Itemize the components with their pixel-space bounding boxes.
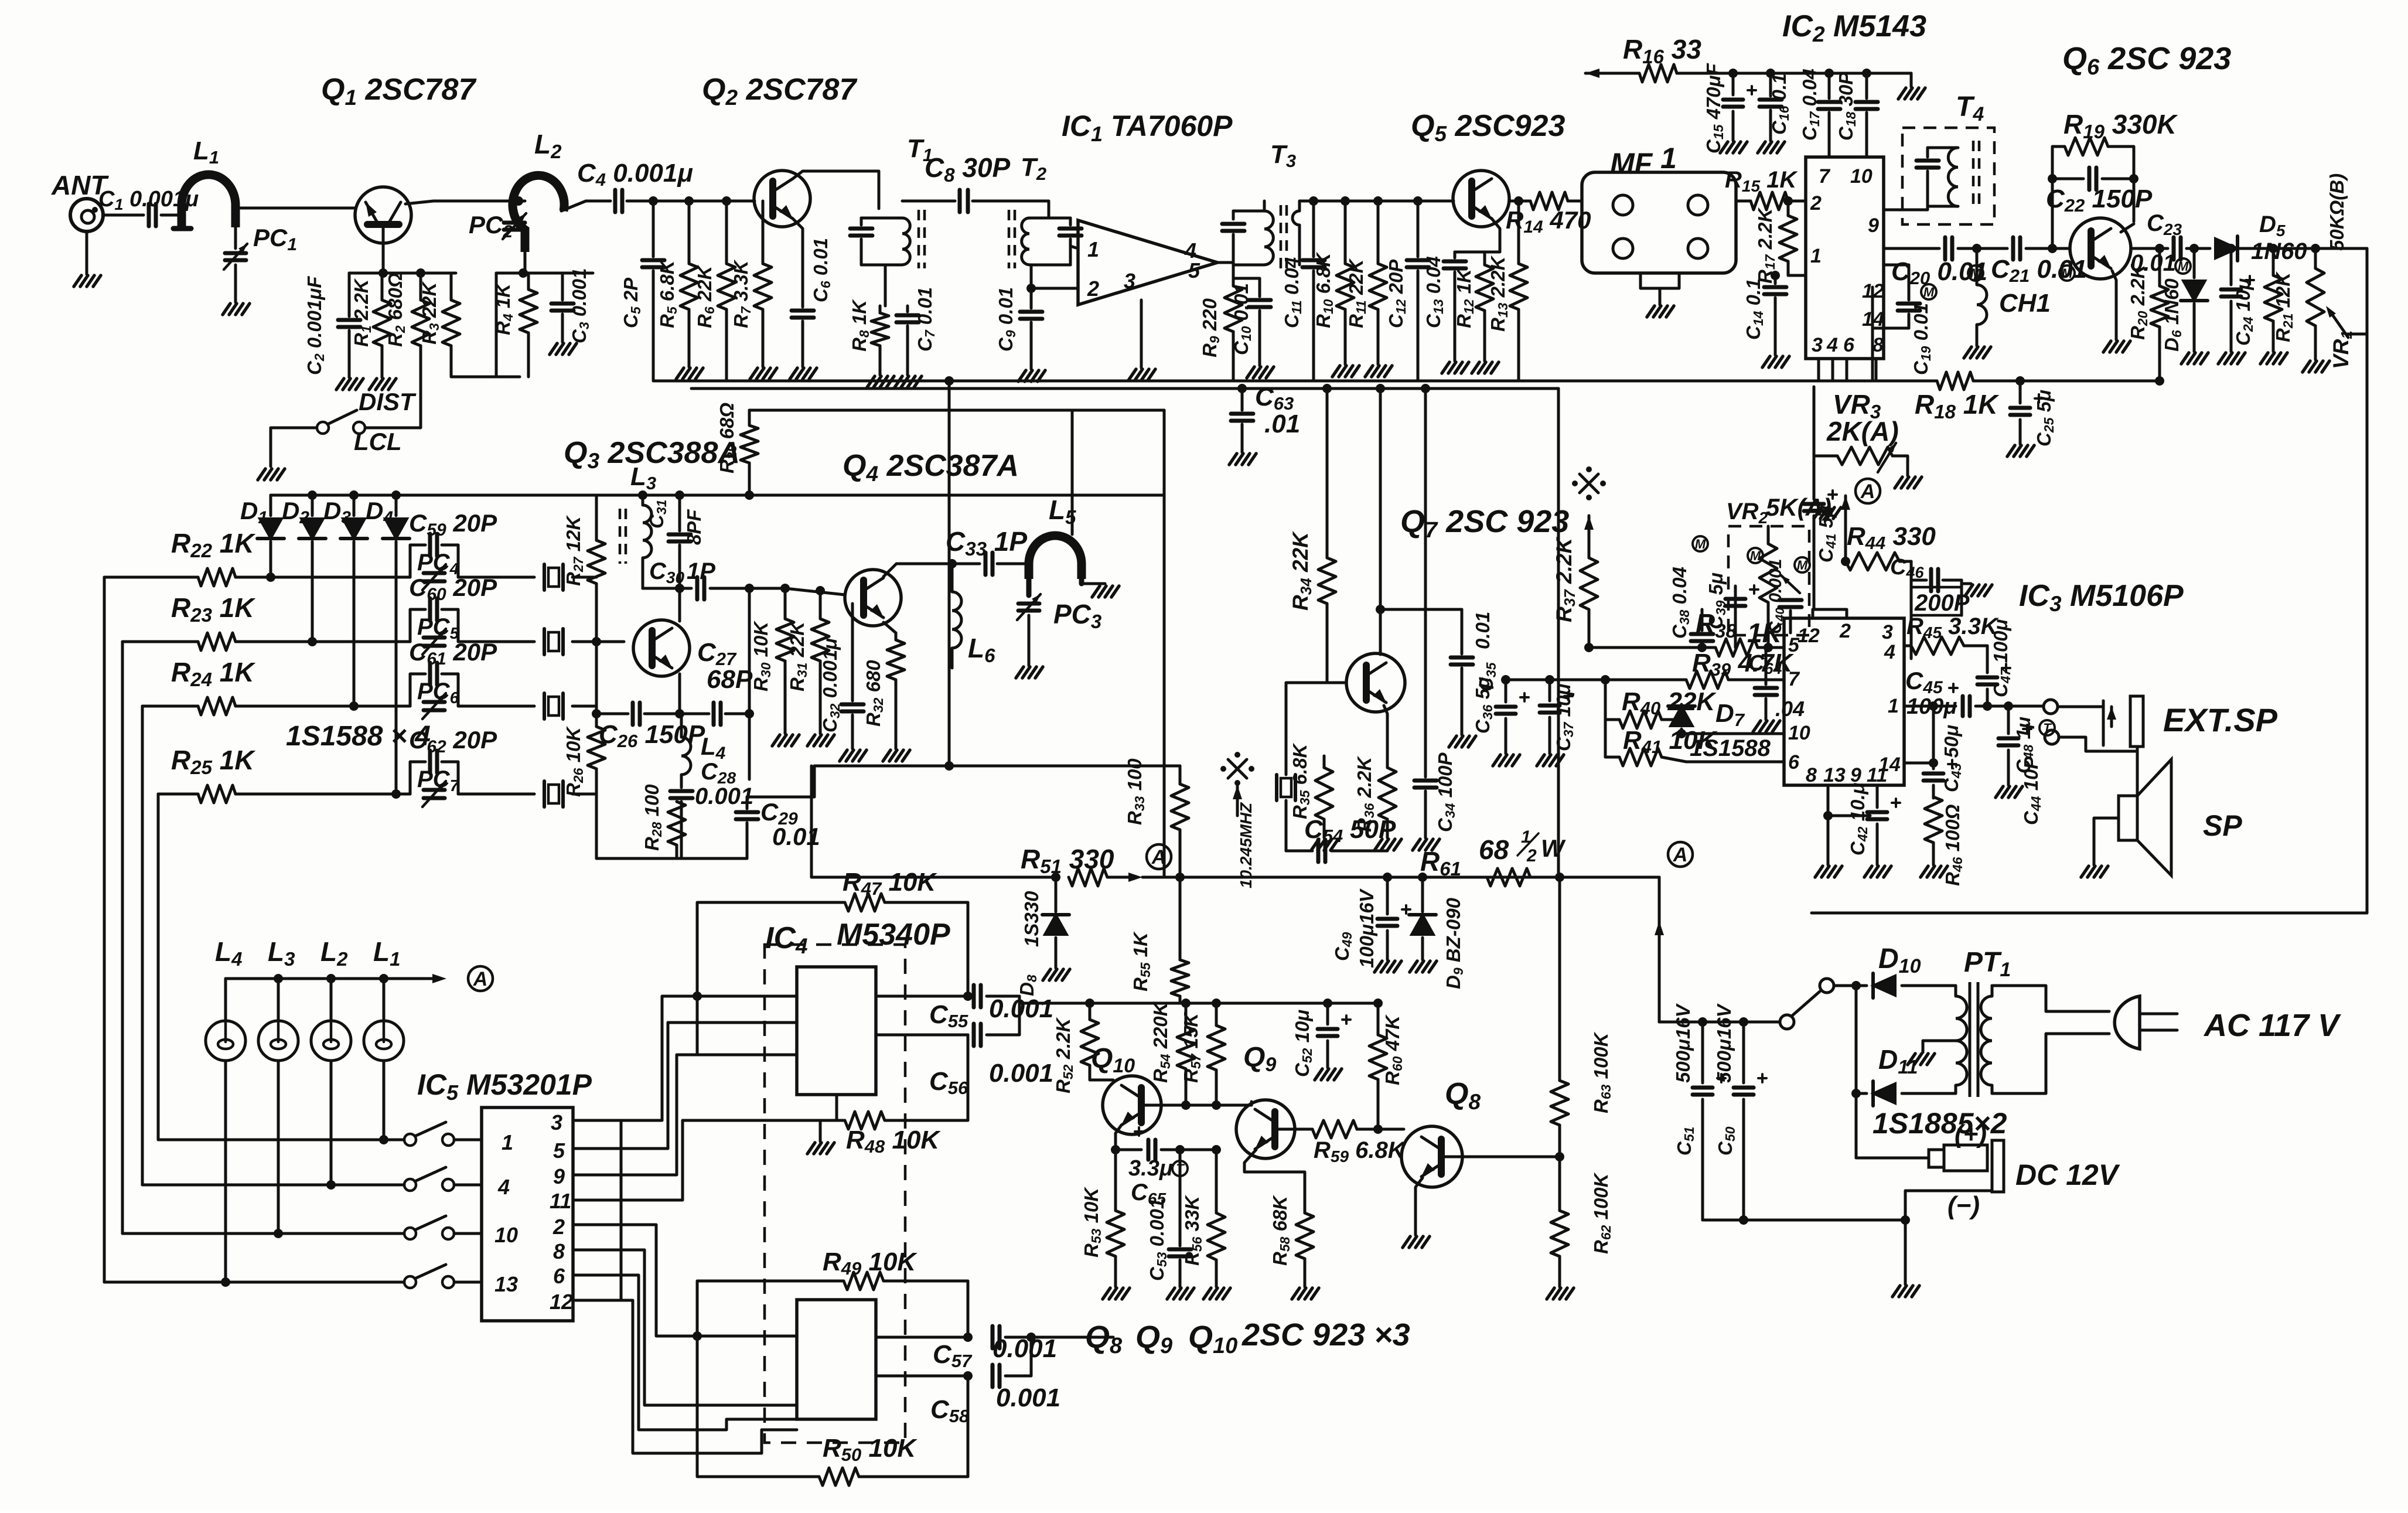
wire R38 to pin5 [1758,646,1784,649]
wire VR3 left [1814,387,1837,456]
resistor R11 22K [1373,196,1383,206]
svg-text:A: A [1673,844,1688,866]
IC4 dashed box [765,945,905,1443]
wire Q4 collector up [884,564,980,577]
capacitor C13 [1454,252,1457,258]
capacitor C41 5u [1813,456,1816,499]
wire C29 to bus [747,766,814,797]
transistor Q4 [845,570,901,626]
svg-text:DIST: DIST [359,388,417,415]
wire switch row2 left [142,1184,404,1187]
wire C30 right [710,587,785,590]
wire bundle8 [680,1419,797,1430]
svg-text:C17 0.04: C17 0.04 [1799,69,1822,141]
svg-text:1S1588 × 4: 1S1588 × 4 [286,721,431,752]
node pin14 [1929,758,1938,768]
wire IC4 in3 [697,1335,797,1338]
wire T1 bottom down [884,265,887,306]
svg-text:C59 20P: C59 20P [409,509,497,540]
capacitor C46 200P [1911,579,1926,582]
svg-text:8: 8 [1806,764,1817,786]
svg-text:8: 8 [1872,334,1884,356]
ground R46 [1921,866,1928,877]
node lamp row3 [274,1229,283,1238]
capacitor C12 20P [1413,196,1423,206]
svg-text:EXT.SP: EXT.SP [2163,701,2278,738]
svg-text:R48 10K: R48 10K [846,1126,941,1157]
svg-text:C34 100P: C34 100P [1434,752,1458,832]
wire C46 gnd stub [1962,582,1971,585]
arrow lamp A [432,974,446,983]
diode D2 1S1588 [311,495,314,516]
capacitor C28 0.001 [670,789,693,793]
wire C41 to IC3 top [1814,609,1847,618]
wire Q6 out right [2133,247,2168,250]
wire bundle4 [621,1225,697,1336]
svg-text:68P: 68P [707,665,753,694]
transformer T2 [1008,210,1011,268]
svg-text:3: 3 [1124,269,1135,293]
AC plug [2114,996,2140,1049]
wire C22 right [2102,179,2134,222]
svg-text:W: W [1541,834,1566,862]
ground R1 [369,379,377,390]
resistor R31 22K [816,586,825,595]
wire C9 node to IC1 pin2 [1031,287,1078,290]
wire MF1 gnd legs [1640,273,1679,288]
resistor R61 68 [1487,868,1530,886]
svg-text:0.001: 0.001 [695,783,753,809]
wire IC4 upper loop [697,902,845,1055]
op-amp IC1 TA7060P [1078,220,1217,305]
ground C10 [1247,367,1254,378]
resistor R38 1K [1715,639,1758,656]
capacitor C25 5u [2019,381,2022,403]
wire Q7 coll to C35 [1380,608,1462,611]
svg-text:M: M [1750,548,1761,563]
ground D9 [1410,961,1417,972]
svg-text:1: 1 [1810,245,1822,267]
wire crystal to bus [572,793,596,796]
wire Q10 chain [1019,1002,1378,1005]
wire lamp L1 top [383,979,386,1021]
svg-text:R54 220K: R54 220K [1150,1001,1173,1083]
node R29 bus [745,490,754,500]
capacitor C50 500u16V [1742,1022,1745,1083]
T mark C48 [2039,720,2055,735]
wire switch row1 left [158,1139,404,1141]
node C58 left [963,1371,973,1381]
potentiometer VR1 50K [2314,248,2317,268]
inductor L5 [1029,536,1082,579]
resistor R1 2.2K [381,273,384,300]
ground SP [2081,866,2089,877]
svg-text:R37 2.2K: R37 2.2K [1552,537,1578,622]
wire PC1 to ground [234,265,237,302]
svg-text:M: M [1695,537,1706,551]
svg-text:C13 0.04: C13 0.04 [1423,256,1446,328]
ground C36 [1493,755,1500,766]
capacitor C1 [147,204,151,226]
wire Q1 bias bus [349,272,456,275]
wire pin14 to C19 [1884,265,1909,300]
wire R39 to pin7 [1728,679,1784,681]
wire lamp bus [226,977,410,980]
node C38 [1697,643,1707,652]
potentiometer VR2 [1728,526,1809,635]
capacitor C40 0.001 [1779,598,1802,602]
M mark C39 [1748,548,1763,563]
svg-text:SP: SP [2203,809,2242,842]
svg-text:R34 22K: R34 22K [1288,531,1315,611]
resistor R28 100 [676,845,678,858]
wire to DC12V plus [1856,1157,1928,1160]
svg-text:M: M [1797,558,1808,573]
svg-text:6: 6 [553,1264,565,1288]
svg-text:0.001: 0.001 [989,994,1053,1023]
transistor Q1 [355,187,411,243]
svg-text:MF 1: MF 1 [1610,142,1677,180]
lamp L1 [364,1021,404,1061]
wire R18 to C25 [1973,380,2020,383]
svg-text:50KΩ(B): 50KΩ(B) [2326,173,2348,251]
jack plug symbol [2102,701,2105,745]
svg-text:C18 30P: C18 30P [1835,71,1858,141]
ground C64 [1753,721,1761,732]
wire C56 right [987,1003,1019,1035]
wire R3 bottom jog [451,376,520,379]
wire supply riser x2660 [1557,389,1560,877]
node R25 diode [391,789,401,799]
wire L2 node bus [496,272,593,275]
transistor Q8 [1401,1126,1462,1187]
node R19 left [2048,174,2057,183]
node R44 [1841,557,1850,566]
capacitor C21 [2011,237,2015,260]
wire x2433 riser [1424,389,1427,775]
switch DIST-LCL [317,422,329,434]
diode D3 1S1588 [353,495,356,516]
capacitor C56 0.001 [972,1024,976,1046]
resistor R21 12K [2272,248,2275,275]
wire lamp L4 top [224,979,227,1021]
svg-text:4: 4 [1884,641,1895,663]
wire R14 to MF1 [1568,200,1582,203]
svg-text:C15 470μF: C15 470μF [1703,63,1726,154]
capacitor C36 5u [1501,675,1510,684]
resistor R53 10K [1111,1145,1120,1154]
transistor Q7 [1346,653,1405,712]
capacitor C30 1P [695,577,700,599]
ground R53 [1103,1288,1110,1299]
node R6 [722,196,731,206]
transformer T1 [861,217,902,220]
ground C25 [2007,445,2015,456]
svg-text:R52 2.2K: R52 2.2K [1052,1017,1076,1093]
svg-text:C38 0.04: C38 0.04 [1669,567,1692,639]
ground VR3 [1895,477,1902,488]
resistor R35 6.8K [1323,850,1326,853]
ground C2 [336,379,344,390]
capacitor C61 20P [410,674,425,706]
svg-text:C47 100μ: C47 100μ [1990,619,2013,697]
svg-text:0.01: 0.01 [2130,250,2176,276]
wire Q6 collector out [2121,224,2134,232]
svg-text:11: 11 [550,1189,571,1213]
wire PT1 center tap [1923,1041,1956,1052]
svg-text:1: 1 [1087,237,1099,261]
node C9 [1026,284,1036,293]
svg-text:R57 15K: R57 15K [1180,1012,1203,1083]
resistor R30 10K [780,584,790,593]
wire pin10 row [1681,732,1784,735]
wire C46 right [1960,580,1963,615]
node C15 [1728,69,1738,78]
node C47 bottom [1983,701,1992,711]
svg-text:R49 10K: R49 10K [823,1248,918,1279]
transformer T4 [1902,128,1994,224]
IC4 lower core [797,1300,876,1419]
svg-text:C39 5μ: C39 5μ [1705,573,1728,629]
wire riser to L2 node [495,273,498,377]
wire C19 bottom [1872,328,1909,381]
wire R37 top [1588,516,1591,558]
diode D4 1S1588 [395,495,398,516]
node R60 bottom [1373,1124,1383,1134]
ground R31 [807,735,815,746]
node C16 [1766,69,1775,78]
wire L5 top supply [1071,410,1074,534]
svg-text:5: 5 [553,1139,565,1163]
capacitor C7 [906,306,909,312]
capacitor C58 0.001 [991,1365,995,1387]
svg-text:C42 10.μ: C42 10.μ [1847,783,1870,856]
IC IC2 M5143 [1806,157,1884,359]
ground C16 [1758,142,1765,153]
ground D6 [2181,353,2189,364]
svg-text:C40 0.001: C40 0.001 [1766,559,1787,634]
resistor R47 10K [845,894,885,911]
wire C22 loop left [2051,179,2054,248]
inductor L1 [182,175,236,227]
resistor R57 15K [1212,999,1221,1008]
svg-text:1N60: 1N60 [2251,238,2307,264]
wire sec top [1992,986,2109,1011]
wire bundle2 [621,1055,697,1175]
wire MF1 gnd stem [1659,288,1662,305]
ground R11 [1365,366,1373,377]
wire supply rail y1497 [811,876,1055,879]
resistor R58 68K [1296,1213,1314,1259]
ground Q8 [1403,1236,1410,1248]
wire jack top to plug [2058,701,2103,707]
node C50 top [1739,1017,1748,1027]
node C50 bottom [1739,1215,1748,1225]
resistor R10 6.8K [1341,196,1350,206]
node sp node [2004,701,2013,711]
node R33 bottom [1175,873,1185,882]
svg-text:R58 68K: R58 68K [1269,1195,1292,1266]
wire C8 to T2 [973,201,1049,218]
wire ANT down [86,231,88,274]
ground D8 [1043,969,1050,980]
ground C53 [1167,1288,1175,1299]
wire R22 to crystal [458,576,534,579]
node R56 top [1212,1145,1221,1154]
svg-text:10: 10 [1850,165,1872,188]
svg-text:R46 100Ω: R46 100Ω [1942,804,1965,886]
ground IC3 pin13 [1815,866,1823,877]
junction A circle 3 [1668,842,1693,867]
trimmer PC6 [424,700,445,704]
wire L2 to C4 [561,201,610,211]
ground C34 [1413,839,1420,850]
svg-text:R53 10K: R53 10K [1080,1187,1104,1258]
wire IC5 stub y1960 [573,1147,621,1150]
wire IC4 out2 [876,1034,968,1037]
svg-text:8: 8 [553,1239,565,1263]
wire IC2 top end gnd [1910,73,1913,87]
resistor R15 1K [1751,192,1788,210]
wire C26 row [596,713,628,715]
resistor R63 100K [1558,877,1561,1081]
wire lamp L2 top [330,979,333,1021]
wire left riser 1 [103,577,106,1282]
svg-text:Q2 2SC787: Q2 2SC787 [702,73,857,110]
wire bottom bus [653,380,1937,383]
svg-text:1S1588: 1S1588 [1690,735,1771,761]
inductor L2 [513,175,564,252]
junction A circle 2 [1147,844,1171,869]
wire C33 to L5 [997,563,1029,565]
node R2 top [416,268,425,278]
resistor R8 1K [879,306,882,313]
svg-text:2: 2 [552,1215,565,1239]
wire T1 to C8 [902,200,955,203]
ground DIST switch [258,469,265,480]
wire R24 to crystal [458,705,534,708]
M mark C19 [1921,284,1936,299]
svg-text:IC3 M5106P: IC3 M5106P [2019,579,2184,616]
wire C23 to D5 [2187,247,2210,250]
wire osc vert x1279 [748,588,751,779]
capacitor C8 [958,190,962,212]
wire Q2 emitter to C6 [793,219,803,307]
svg-text:R14 470: R14 470 [1506,206,1591,237]
capacitor C48 1u [2007,706,2010,734]
ground R12 [1472,362,1479,373]
arrow R51 to A [1128,873,1142,882]
diode D7 1S1588 [1680,704,1683,720]
svg-text:R28 100: R28 100 [641,784,664,851]
node D3 [349,490,359,500]
svg-text:D6 1N60: D6 1N60 [2161,278,2184,352]
svg-text:4: 4 [497,1175,510,1199]
wire C2 top [348,273,351,316]
svg-text:C6 0.01: C6 0.01 [810,238,833,302]
node VR2 bottom [1764,643,1773,652]
node D10 [1851,981,1861,990]
resistor R46 100ohm [1925,797,1942,843]
wire T3 secondary out [1298,201,1301,211]
ground C7 [895,376,902,387]
svg-text:C36 5μ: C36 5μ [1472,677,1495,734]
wire R2 to switch [366,425,421,428]
wire switch row1 to IC5 [454,1139,482,1141]
wire crystal down [1285,800,1288,851]
svg-text:Q5 2SC923: Q5 2SC923 [1411,109,1565,146]
resistor R7 3.3K [762,201,765,264]
node R40 riser [1601,675,1610,684]
ground Q6 emitter [2103,341,2111,352]
capacitor C19 [1898,302,1920,306]
svg-text:3.3μ: 3.3μ [1128,1156,1173,1181]
node lamp 655 [379,974,388,983]
wire R34 to Q7 base [1327,681,1346,684]
wire row R25 left [158,793,198,796]
wire C51 C50 bottom [1703,1219,1905,1222]
wire C22 wire [2052,178,2083,180]
resistor R20 2.2K [2155,244,2164,253]
resistor R37 2.2K [1580,558,1598,609]
wire jack lower [2059,737,2137,751]
node rail C49 [1383,873,1392,882]
node det 3808 [2226,244,2236,253]
wire crystal to C54 [1286,850,1312,853]
wire row R22 mid [236,576,410,579]
svg-text:9: 9 [553,1164,565,1188]
capacitor C54 50P [1316,840,1321,862]
transformer T3 [1233,210,1264,213]
node x2433 [1421,384,1430,393]
crystal X2 [543,629,546,655]
svg-text:C52 10μ: C52 10μ [1291,1010,1315,1077]
ground IC1 pin3 [1128,369,1136,380]
capacitor C59 20P [410,545,425,577]
svg-text:M5340P: M5340P [837,918,950,952]
svg-text:13: 13 [1823,764,1846,786]
wire switch row2 to IC5 [454,1184,482,1187]
node D7 bottom [1677,729,1686,738]
svg-text:R36 2.2K: R36 2.2K [1353,756,1377,832]
capacitor C15 470uF [1732,73,1735,95]
capacitor C34 100P [1424,775,1427,777]
wire C45 to jack [1976,705,2042,708]
wire IC3 pin12 top [1812,609,1814,618]
svg-text:7: 7 [1819,165,1831,188]
svg-text:R29 68Ω: R29 68Ω [716,403,739,473]
node osc out [745,584,754,593]
diode D6 1N60 [2193,248,2196,278]
resistor R39 4.7K [1686,671,1728,689]
node D2 [308,490,317,500]
transistor Q6 [2070,218,2131,279]
transistor Q10 [1103,1076,1161,1134]
resistor R2 680ohm [419,273,422,300]
resistor R4 1K [527,273,530,289]
resistor R16 33 [1639,64,1677,82]
capacitor C62 20P [410,762,425,794]
M mark C38 [1693,536,1708,551]
node L2 tap [514,196,523,206]
svg-text:1: 1 [1888,695,1899,717]
wire R25 to crystal [458,793,534,796]
wire lower loop left [697,1336,819,1477]
wire SP ground [2094,818,2119,865]
resistor R19 330K [2065,138,2108,155]
wire R41 row [1605,756,1619,759]
arrow R37 [1584,516,1594,530]
